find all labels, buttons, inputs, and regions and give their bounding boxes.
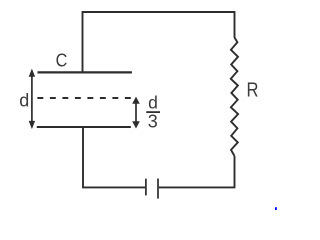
svg-text:R: R xyxy=(247,79,259,102)
svg-text:d: d xyxy=(19,91,29,111)
svg-text:3: 3 xyxy=(148,111,158,131)
svg-text:d: d xyxy=(148,93,158,113)
svg-text:C: C xyxy=(56,51,68,71)
